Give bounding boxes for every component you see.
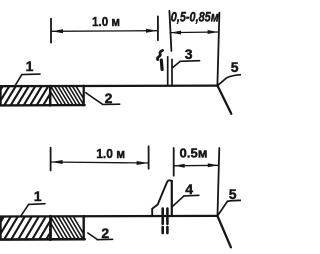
svg-text:4: 4 [185,181,193,197]
svg-text:2: 2 [101,225,109,241]
svg-text:3: 3 [185,46,193,62]
svg-text:2: 2 [105,90,113,106]
svg-text:0,5-0,85м: 0,5-0,85м [171,9,219,24]
svg-text:5: 5 [231,59,239,75]
svg-text:1: 1 [26,58,34,74]
svg-text:0.5м: 0.5м [180,146,208,161]
svg-text:1: 1 [34,188,42,204]
svg-text:1.0 м: 1.0 м [96,146,125,161]
svg-text:5: 5 [229,186,237,202]
svg-text:1.0 м: 1.0 м [92,14,120,29]
